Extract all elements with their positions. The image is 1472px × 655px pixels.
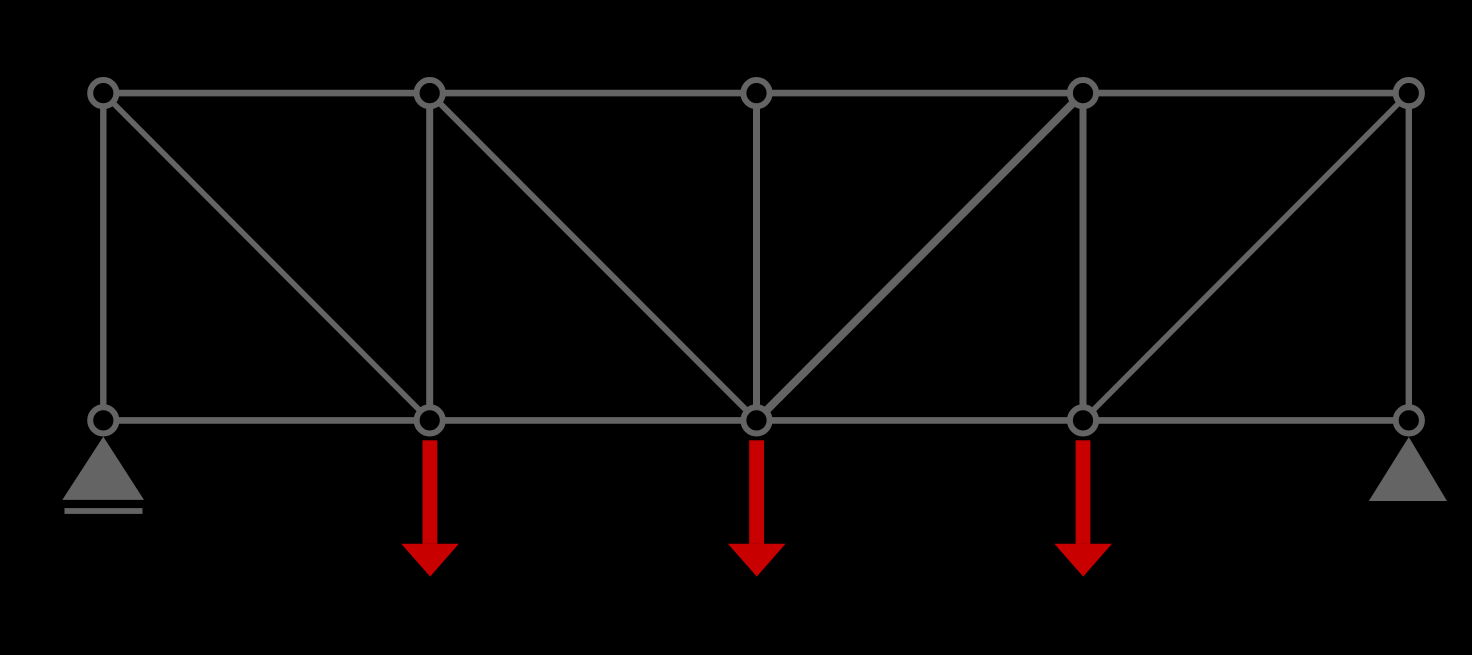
- diagonal member D1: [103, 93, 429, 420]
- node 4 top: [1070, 80, 1096, 106]
- load arrow P3: [1054, 440, 1112, 576]
- pin support (left): [62, 437, 144, 500]
- vertical member V4: [1080, 93, 1087, 420]
- load arrow P1: [401, 440, 459, 576]
- diagonal member D4: [1083, 93, 1409, 420]
- node 2 top: [417, 80, 443, 106]
- vertical member V1: [100, 93, 106, 420]
- ground line under pin support: [65, 508, 143, 514]
- diagonal member D3: [757, 93, 1084, 420]
- diagonal member D2: [430, 93, 757, 420]
- top chord member: [103, 90, 1409, 97]
- bottom chord member: [103, 417, 1409, 424]
- vertical member V5: [1406, 93, 1412, 420]
- node 3 bottom: [743, 407, 769, 433]
- node 5 bottom: [1396, 407, 1422, 433]
- node 5 top: [1396, 80, 1422, 106]
- node 1 top: [90, 80, 116, 106]
- roller support (right): [1369, 437, 1447, 501]
- node 3 top: [743, 80, 769, 106]
- vertical member V3: [753, 93, 760, 420]
- node 2 bottom: [417, 407, 443, 433]
- load arrow P2: [728, 440, 786, 576]
- vertical member V2: [426, 93, 433, 420]
- node 4 bottom: [1070, 407, 1096, 433]
- node 1 bottom: [90, 407, 116, 433]
